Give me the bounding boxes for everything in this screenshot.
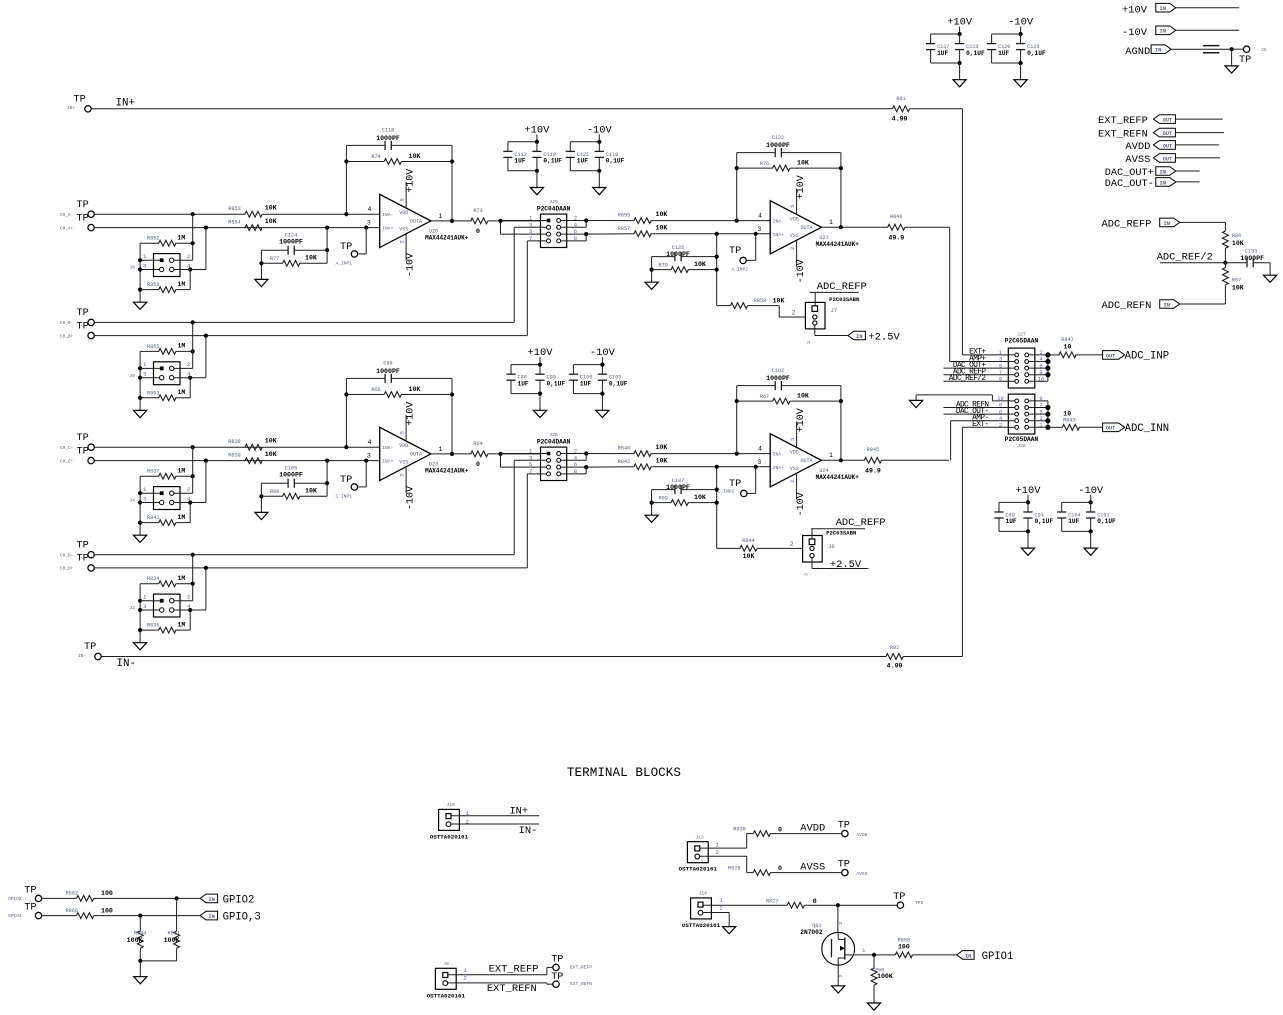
svg-text:P2C04DAAN: P2C04DAAN [537,439,571,446]
capacitor C110 [532,142,562,171]
svg-text:DAC_OUT+: DAC_OUT+ [1105,168,1154,179]
wire J2 pin4 feed [174,568,206,630]
svg-text:R844: R844 [742,538,754,544]
svg-text:R847: R847 [1061,337,1073,343]
resistor R857 [618,224,770,236]
wire CH_B+ row [95,334,528,338]
svg-text:-10V: -10V [1122,27,1148,39]
capacitor C101 [1086,502,1116,531]
svg-text:9: 9 [1039,396,1042,402]
svg-text:100K: 100K [164,937,180,944]
testpoint A_INP1 [336,228,367,267]
svg-text:J29: J29 [549,199,558,205]
svg-text:TP2: TP2 [915,900,924,906]
pin 10 J26 [997,396,1003,402]
resistor R77 [259,250,327,266]
svg-text:C118: C118 [382,128,394,134]
svg-text:4.99: 4.99 [887,662,903,669]
svg-text:10K: 10K [773,298,785,305]
testpoint GPIO3 [8,903,42,920]
resistor R67 [737,393,841,404]
svg-text:10: 10 [997,396,1003,402]
svg-text:J9: J9 [130,373,136,379]
svg-text:IN: IN [965,953,971,959]
svg-text:3: 3 [143,262,146,269]
ground GPIO [134,977,147,984]
svg-text:6: 6 [1039,363,1042,369]
svg-text:P2C03SABN: P2C03SABN [826,529,856,536]
power label -10V [587,124,613,136]
resistor R64 [471,441,541,468]
svg-text:3: 3 [757,459,761,466]
svg-text:10K: 10K [305,255,317,262]
svg-text:OUT: OUT [1163,143,1172,149]
svg-text:3: 3 [757,226,761,233]
ground G5 [533,410,546,417]
svg-text:1000PF: 1000PF [1240,255,1264,262]
svg-text:R64: R64 [473,441,482,447]
wire J2 pin2 feed [174,555,193,601]
svg-text:1000PF: 1000PF [376,135,400,142]
wire AMP- vertical [950,421,952,461]
jumper J4 [130,486,192,510]
resistor R836 [140,621,190,633]
net label EXT_REFP wire [448,963,552,975]
svg-text:R74: R74 [371,154,380,160]
svg-text:TP: TP [1239,55,1251,66]
svg-text:OUT: OUT [1106,353,1115,359]
svg-text:R77: R77 [270,256,279,262]
svg-text:A_INP2: A_INP2 [732,267,749,273]
svg-text:2: 2 [716,849,719,856]
resistor R844 [717,538,803,560]
svg-text:R842: R842 [618,459,630,465]
testpoint CH_C- [60,433,94,451]
svg-text:2N7002: 2N7002 [800,929,823,936]
svg-text:R827: R827 [766,899,778,905]
testpoint CH_D- [60,541,94,559]
svg-text:10: 10 [1064,344,1072,351]
svg-text:4: 4 [999,416,1002,422]
svg-text:J6: J6 [828,543,835,550]
net label ADC_REFN flag [1102,300,1226,312]
svg-text:TERMINAL BLOCKS: TERMINAL BLOCKS [567,766,681,780]
svg-text:J4: J4 [130,498,136,504]
resistor R74 [346,153,452,164]
resistor R86 [1223,231,1244,263]
power flag +2.5V upper [848,331,901,343]
svg-text:VSS: VSS [399,226,408,232]
ground G2 [593,188,606,195]
svg-text:2: 2 [999,423,1002,429]
svg-text:Q81: Q81 [812,923,821,929]
svg-text:TP: TP [77,554,89,565]
testpoint CH_C+ [60,446,94,464]
resistor R79 [650,257,719,273]
capacitor C105 [261,466,329,488]
svg-text:4: 4 [368,439,372,446]
svg-text:1: 1 [1039,423,1042,429]
svg-text:R864: R864 [134,931,146,937]
svg-text:1000PF: 1000PF [666,251,690,258]
svg-text:ADC_REF/2: ADC_REF/2 [949,375,987,383]
svg-text:4: 4 [758,446,762,453]
svg-text:MAX44241AUK+: MAX44241AUK+ [816,474,860,481]
svg-text:R865: R865 [147,344,159,350]
wire G7 rail [999,495,1030,505]
svg-text:OUT: OUT [1163,131,1172,137]
wire CH_C+ row [95,459,380,463]
resistor R858 [895,938,956,958]
net label GPIO1 [957,951,1014,963]
svg-text:INA-: INA- [382,445,393,451]
wire J29 pin3 feed [514,227,546,322]
wire J8 left bus [138,243,160,302]
wire EXT+ vertical [961,109,963,355]
connector J27 [1005,332,1039,388]
svg-text:R836: R836 [147,623,159,629]
svg-text:OSTTA020161: OSTTA020161 [682,922,721,929]
wire CH_D+ row [95,566,528,570]
wire U27 feedback left [735,153,739,221]
net label DAC_OUT- [1105,178,1200,191]
svg-text:100: 100 [898,944,910,951]
wire G4 rail [992,27,1023,37]
connector J6 [803,529,857,562]
svg-text:R69: R69 [659,495,668,501]
resistor R830 [700,826,841,848]
wire J7 pin3 +2.5V [806,325,848,344]
svg-text:R838: R838 [228,439,240,445]
net label AMP+ J27 pin3 [950,355,1015,363]
capacitor C120 [987,34,1011,63]
svg-text:2: 2 [790,480,796,483]
capacitor C89 [994,502,1017,531]
power flag -10V [1122,26,1239,39]
wire J4 pin4 feed [174,461,206,523]
wire J9 pin4 feed [174,336,206,398]
testpoint AVSS [838,859,868,877]
svg-text:TP: TP [893,892,905,903]
wire U23 feedback right [450,378,454,456]
connector J26 [1005,394,1039,449]
svg-text:C_INP2: C_INP2 [718,489,735,495]
resistor R837 [140,468,195,480]
svg-text:OUTA: OUTA [410,219,422,225]
svg-text:CH_A-: CH_A- [60,213,73,218]
resistor R847 [1048,337,1103,358]
capacitor C123 [1016,34,1046,63]
capacitor C102 [737,368,841,390]
capacitor C104 [1057,502,1081,531]
svg-text:R841: R841 [147,515,159,521]
op-amp U27 -10V stub [796,241,807,284]
op-amp U23 labels [425,461,469,474]
jumper J8 [130,253,192,277]
ground R77 [255,263,268,286]
power flag +10V [1122,3,1239,16]
svg-text:0: 0 [813,898,817,905]
svg-text:R66: R66 [371,387,380,393]
svg-text:1M: 1M [178,514,186,521]
net label AVDD term [800,823,825,835]
wire G8 rail [1062,495,1093,505]
resistor R839 [228,451,276,463]
ground G7 [1021,548,1034,555]
svg-text:+2.5V: +2.5V [869,332,901,344]
transistor Q81 [800,922,854,977]
svg-text:10K: 10K [797,160,809,167]
connector J7 [805,296,859,329]
net label EXT- J26 [962,421,1014,429]
svg-text:0,1UF: 0,1UF [547,380,566,387]
svg-text:EXT_REFN: EXT_REFN [1098,129,1148,141]
svg-text:R846: R846 [890,214,902,220]
capacitor C99 [346,361,452,384]
wire U27 inp filter tap [716,234,718,306]
net label ADC_REFP flag [1102,218,1226,231]
net label ADC_REFP J27 pin7 [944,369,1015,377]
svg-text:VSS: VSS [790,466,799,472]
svg-text:TP: TP [729,246,741,257]
svg-text:TP: TP [84,642,96,653]
svg-text:TP: TP [24,885,36,896]
wire G1 rail [508,134,539,144]
capacitor C125 [652,245,719,261]
wire U23 out [431,453,472,455]
svg-text:100: 100 [101,890,113,897]
svg-text:1000PF: 1000PF [376,368,400,375]
resistor R842 [618,457,770,469]
svg-text:J8: J8 [443,961,449,967]
net label EXT_REFN wire [448,983,553,995]
wire J26 output bus [1029,396,1051,430]
svg-text:100K: 100K [877,973,893,980]
wire CH_B- row [95,320,515,324]
resistor R66 [346,386,452,397]
svg-text:+10V: +10V [1122,5,1148,17]
svg-text:-10V: -10V [405,253,416,277]
svg-text:P2C03SABN: P2C03SABN [829,296,859,303]
svg-text:10K: 10K [656,457,668,464]
svg-text:IN: IN [1160,169,1166,175]
ground J14 [723,927,736,934]
svg-text:P2C05DAAN: P2C05DAAN [1005,436,1039,443]
testpoint CH_A+ [60,213,94,231]
wire J25 pin7 feed [527,474,546,568]
op-amp U26 [380,194,431,247]
svg-text:EXT_REFP: EXT_REFP [570,965,592,971]
svg-text:10K: 10K [1232,240,1244,247]
svg-text:R830: R830 [733,826,745,832]
svg-text:1M: 1M [178,343,186,350]
resistor R861 [164,898,180,961]
capacitor C94 [1023,502,1053,531]
testpoint CH_B+ [60,321,94,339]
wire AMP+ vertical [949,227,951,361]
svg-text:R73: R73 [473,208,482,214]
net label ADC_INP [1103,351,1170,363]
svg-text:IN-: IN- [78,654,86,659]
connector J29 [529,199,578,247]
svg-text:R87: R87 [1232,278,1241,284]
net label EXT_REFP [1098,115,1223,127]
svg-text:J25: J25 [549,432,558,438]
svg-text:R863: R863 [147,390,159,396]
svg-text:AVDD: AVDD [856,832,867,838]
ground J4 [134,535,147,543]
svg-text:OUTA: OUTA [801,458,813,464]
wire G3 bottom [931,61,962,80]
op-amp U27 labels [816,235,860,248]
svg-text:R856: R856 [147,282,159,288]
resistor R76 [737,160,841,171]
wire G2 rail [570,134,601,144]
wire G1 bottom [508,169,539,188]
net label EXT+ J27 pin1 [962,349,1014,357]
svg-text:10K: 10K [265,451,277,458]
wire A+ filter tap [326,228,328,264]
wire U24 feedback right [839,386,843,463]
wire Q81 source [837,965,839,986]
svg-text:1000PF: 1000PF [279,472,303,479]
resistor R81 [892,96,963,122]
capacitor C118 [346,128,452,151]
svg-text:1UF: 1UF [580,380,591,387]
wire J25 out A [561,451,589,460]
net label AVSS term [800,862,825,874]
jumper J2 [130,594,192,618]
svg-text:CH_C-: CH_C- [60,446,73,451]
op-amp U27 +10V stub [796,175,807,214]
svg-text:5: 5 [790,205,796,208]
svg-text:AVSS: AVSS [800,862,825,874]
net label ADC_REF/2 J27 pin9 [944,375,1015,383]
svg-text:10K: 10K [409,386,421,393]
pin 1 U26 [439,213,443,220]
svg-text:0: 0 [476,461,480,468]
svg-text:2: 2 [838,974,844,977]
svg-text:CH_C+: CH_C+ [60,459,74,464]
wire J25 pin1-5 tie [501,454,547,468]
wire G6 rail [573,357,604,367]
svg-text:ADC_REFP: ADC_REFP [817,281,867,293]
wire J8 pin4 feed [174,228,206,290]
resistor R864 [127,916,147,963]
svg-text:1UF: 1UF [514,158,525,165]
svg-text:J13: J13 [695,834,704,840]
wire G5 bottom [511,392,542,411]
wire J27 output bus [1029,350,1051,382]
resistor R866 [42,907,200,918]
wire J2 left bus [138,584,160,643]
svg-text:TP: TP [77,213,89,224]
svg-text:1M: 1M [178,389,186,396]
wire U26 feedback left [344,145,348,216]
testpoint C_INP1 [336,461,367,500]
op-amp U24 +10V stub [796,408,807,447]
svg-text:OSTTA020161: OSTTA020161 [427,992,466,999]
svg-text:R840: R840 [618,446,630,452]
svg-text:CH_B-: CH_B- [60,321,73,326]
connector J10 [430,802,470,840]
svg-text:2: 2 [187,486,190,493]
svg-text:10K: 10K [656,444,668,451]
net label ADC_INN [1103,423,1170,435]
svg-text:OUTA: OUTA [801,225,813,231]
wire G5 rail [511,357,542,367]
wire U27 feedback right [839,153,843,230]
svg-text:MAX44241AUK+: MAX44241AUK+ [816,241,860,248]
svg-text:ADC_REFN: ADC_REFN [1102,300,1152,312]
svg-text:0,1UF: 0,1UF [609,380,628,387]
svg-text:R866: R866 [66,908,78,914]
svg-text:INA+: INA+ [382,459,393,465]
ground G1 [530,188,543,195]
svg-text:VDD: VDD [790,217,799,223]
svg-text:IN: IN [1160,29,1166,35]
svg-text:OSTTA020161: OSTTA020161 [430,833,469,840]
svg-text:4: 4 [1039,357,1042,363]
svg-text:0,1UF: 0,1UF [606,158,625,165]
resistor R73 [471,208,541,235]
wire R842 row [586,466,634,468]
resistor R853 [228,205,276,218]
wire U24 out [821,459,864,461]
capacitor C88 [506,365,529,394]
svg-text:10: 10 [1063,411,1071,418]
capacitor C133 [1225,249,1270,276]
svg-text:VSS: VSS [399,459,408,465]
svg-text:R76: R76 [760,161,769,167]
wire C+ filter tap [326,461,328,497]
title TERMINAL BLOCKS [567,766,681,780]
pin 4 U26 [368,206,372,213]
svg-text:INA+: INA+ [773,232,784,238]
wire GPIO pulldown join [140,961,176,977]
net label ADC_REFP lower [811,517,885,539]
capacitor C100 [569,365,593,394]
svg-text:R857: R857 [618,226,630,232]
svg-text:2: 2 [187,361,190,368]
svg-text:+10V: +10V [405,169,416,193]
svg-text:TP: TP [77,308,89,319]
pin 2 J7 [792,310,796,317]
svg-text:R82: R82 [890,645,899,651]
resistor R840 [618,444,770,456]
svg-text:3: 3 [804,573,810,576]
svg-text:6: 6 [999,409,1002,415]
pin 2 J6 [790,541,794,548]
svg-text:2: 2 [1039,350,1042,356]
net label DAC_OUT+ [1105,167,1200,180]
svg-text:AVDD: AVDD [800,823,825,835]
testpoint AGND [1232,46,1267,66]
pin 1 Q81 [862,947,866,954]
svg-text:IN: IN [1163,302,1169,308]
svg-text:2: 2 [187,253,190,260]
svg-text:IN: IN [1160,6,1166,12]
svg-text:C_INP1: C_INP1 [336,493,353,499]
ground R79 [645,270,658,290]
svg-text:IN: IN [208,897,214,903]
net label AVSS [1125,154,1220,166]
wire J9 left bus [138,351,160,410]
svg-text:8: 8 [999,403,1002,409]
svg-text:R81: R81 [896,96,905,102]
wire CH_A- row [95,212,380,216]
wire G7 bottom [999,529,1030,548]
